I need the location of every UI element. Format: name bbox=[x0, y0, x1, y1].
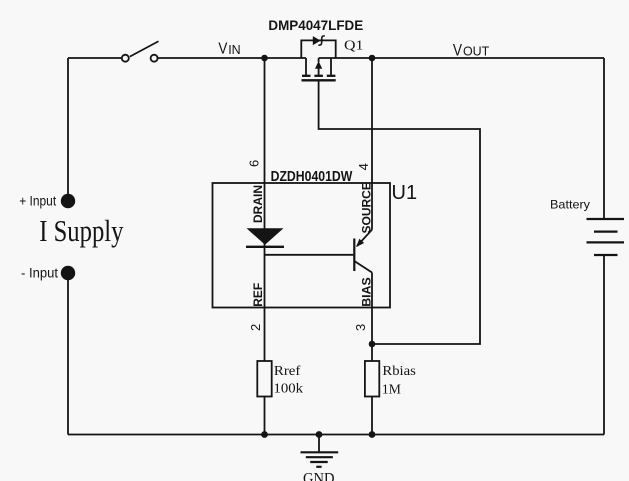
svg-text:100k: 100k bbox=[274, 382, 304, 397]
svg-text:3: 3 bbox=[353, 324, 368, 331]
svg-text:V: V bbox=[218, 41, 227, 58]
svg-text:SOURCE: SOURCE bbox=[359, 182, 373, 233]
svg-text:GND: GND bbox=[303, 471, 335, 481]
svg-text:+ Input: + Input bbox=[19, 194, 56, 209]
svg-text:DRAIN: DRAIN bbox=[251, 185, 265, 223]
svg-text:IN: IN bbox=[228, 42, 241, 57]
svg-text:1M: 1M bbox=[382, 382, 402, 397]
svg-text:REF: REF bbox=[251, 283, 265, 307]
svg-text:DMP4047LFDE: DMP4047LFDE bbox=[268, 17, 363, 33]
svg-text:Rbias: Rbias bbox=[382, 364, 416, 379]
svg-text:Battery: Battery bbox=[550, 197, 590, 211]
svg-text:V: V bbox=[453, 42, 462, 60]
svg-text:2: 2 bbox=[248, 324, 263, 331]
svg-text:Rref: Rref bbox=[274, 364, 301, 379]
svg-text:DZDH0401DW: DZDH0401DW bbox=[271, 169, 353, 185]
svg-text:OUT: OUT bbox=[463, 44, 489, 59]
svg-text:6: 6 bbox=[247, 160, 262, 167]
svg-text:I Supply: I Supply bbox=[39, 214, 124, 248]
svg-text:- Input: - Input bbox=[21, 266, 58, 281]
svg-text:BIAS: BIAS bbox=[359, 277, 373, 307]
svg-text:U1: U1 bbox=[392, 182, 418, 204]
svg-text:4: 4 bbox=[356, 163, 371, 170]
svg-text:Q1: Q1 bbox=[344, 38, 364, 53]
